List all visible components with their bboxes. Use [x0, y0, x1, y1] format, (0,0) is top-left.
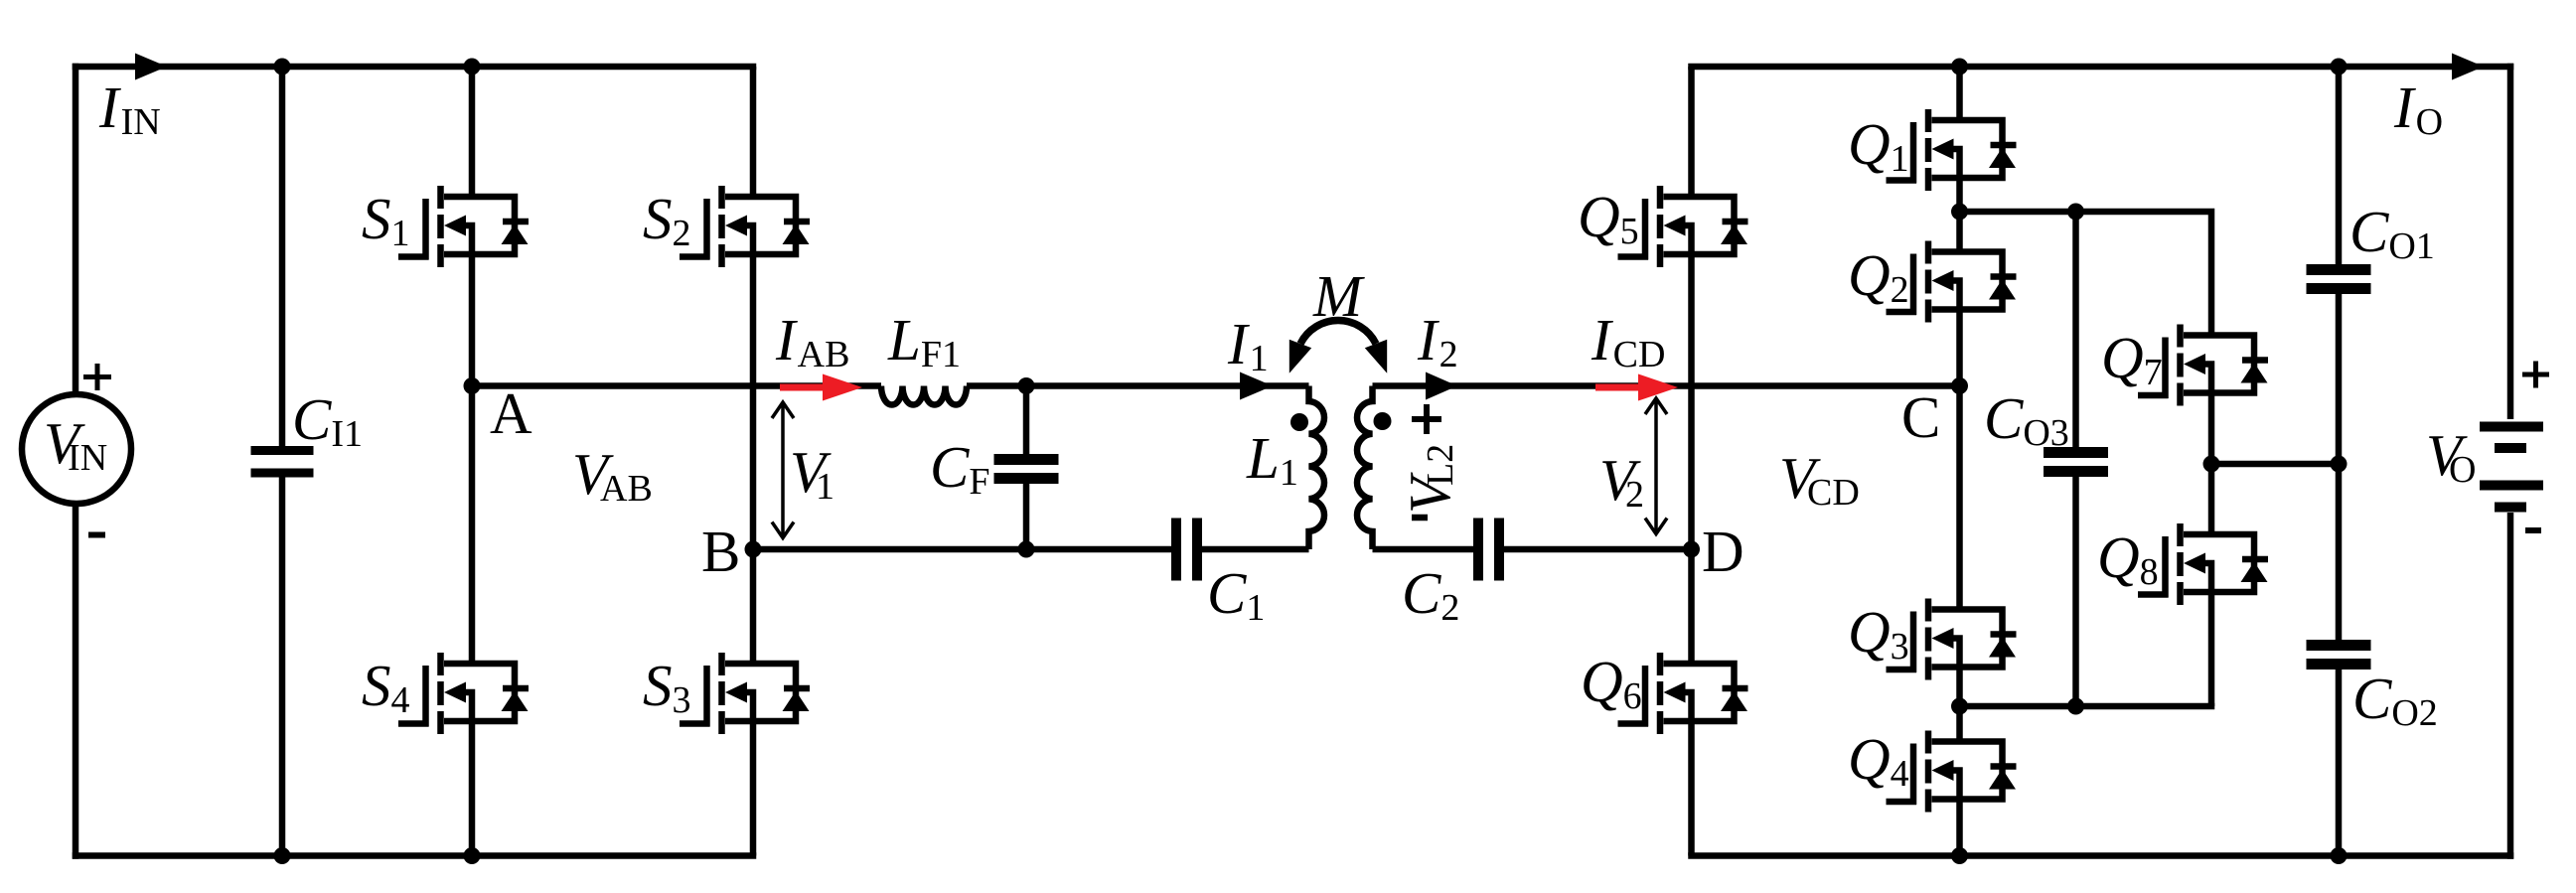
- capacitor CI1: [251, 451, 314, 474]
- wire CF branch upper: [1023, 386, 1030, 461]
- junction dot CO3 bottom: [2067, 698, 2084, 715]
- wire mid link to CO1: [2211, 461, 2339, 468]
- transistor Q6: [1618, 653, 1748, 734]
- wire CO1 branch lower: [2336, 288, 2343, 464]
- wire S1 source to A to S4 drain: [469, 254, 476, 664]
- wire node M2 to Q8: [1960, 703, 2215, 710]
- transistor Q3: [1887, 599, 2017, 680]
- wire Q7 source down: [2208, 393, 2215, 465]
- V1 double arrow: [772, 402, 794, 538]
- mutual coupling M arc: [1300, 321, 1376, 344]
- wire Q2 source through C to Q3 drain: [1956, 310, 1963, 610]
- IIN arrow: [135, 54, 167, 80]
- junction dot top rail S1: [464, 59, 481, 75]
- wire VO branch lower: [2507, 513, 2514, 859]
- junction dot node M1: [1951, 204, 1968, 221]
- wire left edge lower: [73, 504, 79, 859]
- V2 double arrow: [1645, 398, 1667, 534]
- VO minus sign: [2525, 527, 2541, 533]
- junction dot top rail CO1: [2331, 59, 2348, 75]
- I2 arrow: [1426, 372, 1457, 400]
- junction dot mid link left: [2203, 456, 2220, 473]
- wire CO3 branch upper: [2072, 212, 2079, 453]
- wire S2 drain: [750, 67, 757, 197]
- VO plus sign: [2522, 362, 2549, 388]
- wire bottom rail left: [73, 852, 757, 859]
- capacitor C1: [1176, 519, 1197, 581]
- wire Q6 source: [1688, 721, 1695, 856]
- capacitor CO1: [2307, 270, 2371, 289]
- junction dot bottom rail CO2: [2331, 847, 2348, 864]
- wire LF1 to primary: [967, 382, 1309, 389]
- battery VO: [2480, 427, 2543, 508]
- transistor Q5: [1618, 186, 1748, 267]
- wire CI1 branch upper: [279, 67, 286, 447]
- junction dot top rail Q column: [1951, 59, 1968, 75]
- inductor LF1: [881, 386, 967, 405]
- transistor S3: [680, 653, 810, 734]
- transistor Q4: [1887, 731, 2017, 813]
- capacitor CO2: [2307, 646, 2371, 665]
- transistor S4: [398, 653, 529, 734]
- secondary polarity dot: [1374, 412, 1392, 430]
- wire Q3 source to Q4 drain: [1956, 668, 1963, 742]
- VL2 minus sign: [1412, 515, 1428, 521]
- wire secondary bottom to C2: [1373, 546, 1479, 553]
- wire Q1 source to Q2 drain: [1956, 178, 1963, 252]
- svg-text:B: B: [701, 519, 740, 584]
- node B: [745, 541, 762, 558]
- transistor Q2: [1887, 241, 2017, 323]
- wire B to C1: [753, 546, 1176, 553]
- junction dot node M2: [1951, 698, 1968, 715]
- wire Q1 drain: [1956, 67, 1963, 120]
- transistor Q7: [2138, 325, 2268, 406]
- voltage source VIN: [22, 394, 131, 504]
- wire Q8 drain: [2208, 464, 2215, 534]
- svg-text:D: D: [1702, 519, 1744, 584]
- VIN plus sign: [83, 364, 111, 390]
- wire top rail left: [73, 64, 757, 71]
- M arc right arrowhead: [1365, 340, 1387, 373]
- transformer secondary winding: [1357, 386, 1372, 550]
- wire left edge upper: [73, 64, 79, 394]
- wire CO2 branch upper: [2336, 464, 2343, 646]
- wire CI1 branch lower: [279, 477, 286, 856]
- capacitor CO3: [2044, 453, 2108, 472]
- wire Q5 drain: [1688, 67, 1695, 197]
- wire CO3 branch lower: [2072, 471, 2079, 706]
- wire C2 to node D: [1499, 546, 1692, 553]
- wire S4 source: [469, 721, 476, 856]
- junction dot CF bottom: [1018, 541, 1035, 558]
- VL2 plus sign: [1412, 404, 1441, 434]
- svg-text:C: C: [1901, 384, 1940, 450]
- wire VO branch upper: [2507, 64, 2514, 419]
- IO arrow: [2452, 54, 2484, 80]
- capacitor CF: [994, 460, 1059, 479]
- wire top rail right: [1688, 64, 2513, 71]
- M arc left arrowhead: [1289, 340, 1311, 373]
- primary polarity dot: [1290, 413, 1308, 431]
- wire Q8 source down: [2208, 592, 2215, 706]
- junction dot CO3 top: [2067, 204, 2084, 221]
- wire C1 to primary bottom: [1197, 546, 1309, 553]
- node C: [1951, 377, 1968, 394]
- capacitor C2: [1478, 519, 1499, 581]
- VIN minus sign: [88, 532, 105, 538]
- wire CO2 branch lower: [2336, 664, 2343, 856]
- transistor Q1: [1887, 109, 2017, 191]
- IAB red arrow: [780, 374, 862, 401]
- wire S1 drain: [469, 67, 476, 197]
- transistor S1: [398, 186, 529, 267]
- ICD red arrow: [1595, 374, 1678, 401]
- wire secondary top to node C: [1373, 382, 1960, 389]
- transistor Q8: [2138, 523, 2268, 605]
- transistor S2: [680, 186, 810, 267]
- transformer primary winding L1: [1309, 386, 1324, 550]
- junction dot bottom rail S4: [464, 847, 481, 864]
- junction dot bottom rail Q column: [1951, 847, 1968, 864]
- svg-text:M: M: [1312, 263, 1365, 329]
- junction dot top rail CI1: [274, 59, 291, 75]
- node D: [1683, 541, 1700, 558]
- junction dot CF top: [1018, 377, 1035, 394]
- wire bottom rail right: [1688, 852, 2513, 859]
- junction dot mid link right: [2331, 456, 2348, 473]
- wire A to LF1: [472, 382, 881, 389]
- wire S3 source: [750, 721, 757, 856]
- wire CO1 branch upper: [2336, 67, 2343, 270]
- I1 arrow: [1240, 372, 1273, 400]
- svg-text:A: A: [490, 380, 532, 446]
- wire Q5 source through D to Q6 drain: [1688, 254, 1695, 664]
- junction dot bottom rail CI1: [274, 847, 291, 864]
- wire CF branch lower: [1023, 478, 1030, 549]
- wire Q4 source: [1956, 800, 1963, 856]
- wire S2 source through B to S3 drain: [750, 254, 757, 664]
- wire node M1 to Q7 drain: [1960, 212, 2212, 336]
- node A: [464, 377, 481, 394]
